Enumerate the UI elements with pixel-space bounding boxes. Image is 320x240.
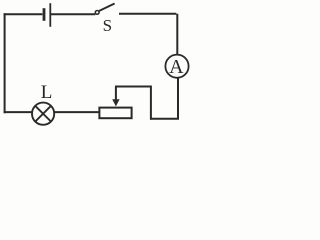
svg-text:A: A [169, 56, 184, 78]
lamp cross [35, 106, 51, 122]
wire: top segment from left corner to battery [4, 13, 43, 15]
switch blade (open) [99, 4, 114, 11]
wire: top segment from battery to switch [51, 13, 95, 15]
rheostat wiper arrow shaft [115, 87, 117, 101]
wire: right rail below ammeter down to bottom-right corner then left [150, 78, 179, 119]
rheostat wiper arrowhead [112, 99, 119, 106]
lamp L1 circle [32, 103, 54, 125]
switch pivot circle [95, 11, 99, 15]
svg-text:L: L [41, 82, 53, 103]
battery positive plate (long, thin) [49, 3, 51, 27]
battery negative plate (short, thick) [43, 8, 46, 21]
wire: top segment from switch to top-right corner [119, 14, 177, 55]
wire: middle vertical up from bottom-right run [150, 88, 152, 120]
wire: wiper horizontal lead [115, 86, 152, 88]
rheostat R1 body [99, 108, 131, 119]
svg-text:S: S [103, 16, 112, 35]
wire: bottom rail from left corner through lamp to rheostat [4, 111, 99, 113]
wire: left vertical rail [4, 13, 6, 113]
ammeter U1 circle [165, 55, 188, 78]
